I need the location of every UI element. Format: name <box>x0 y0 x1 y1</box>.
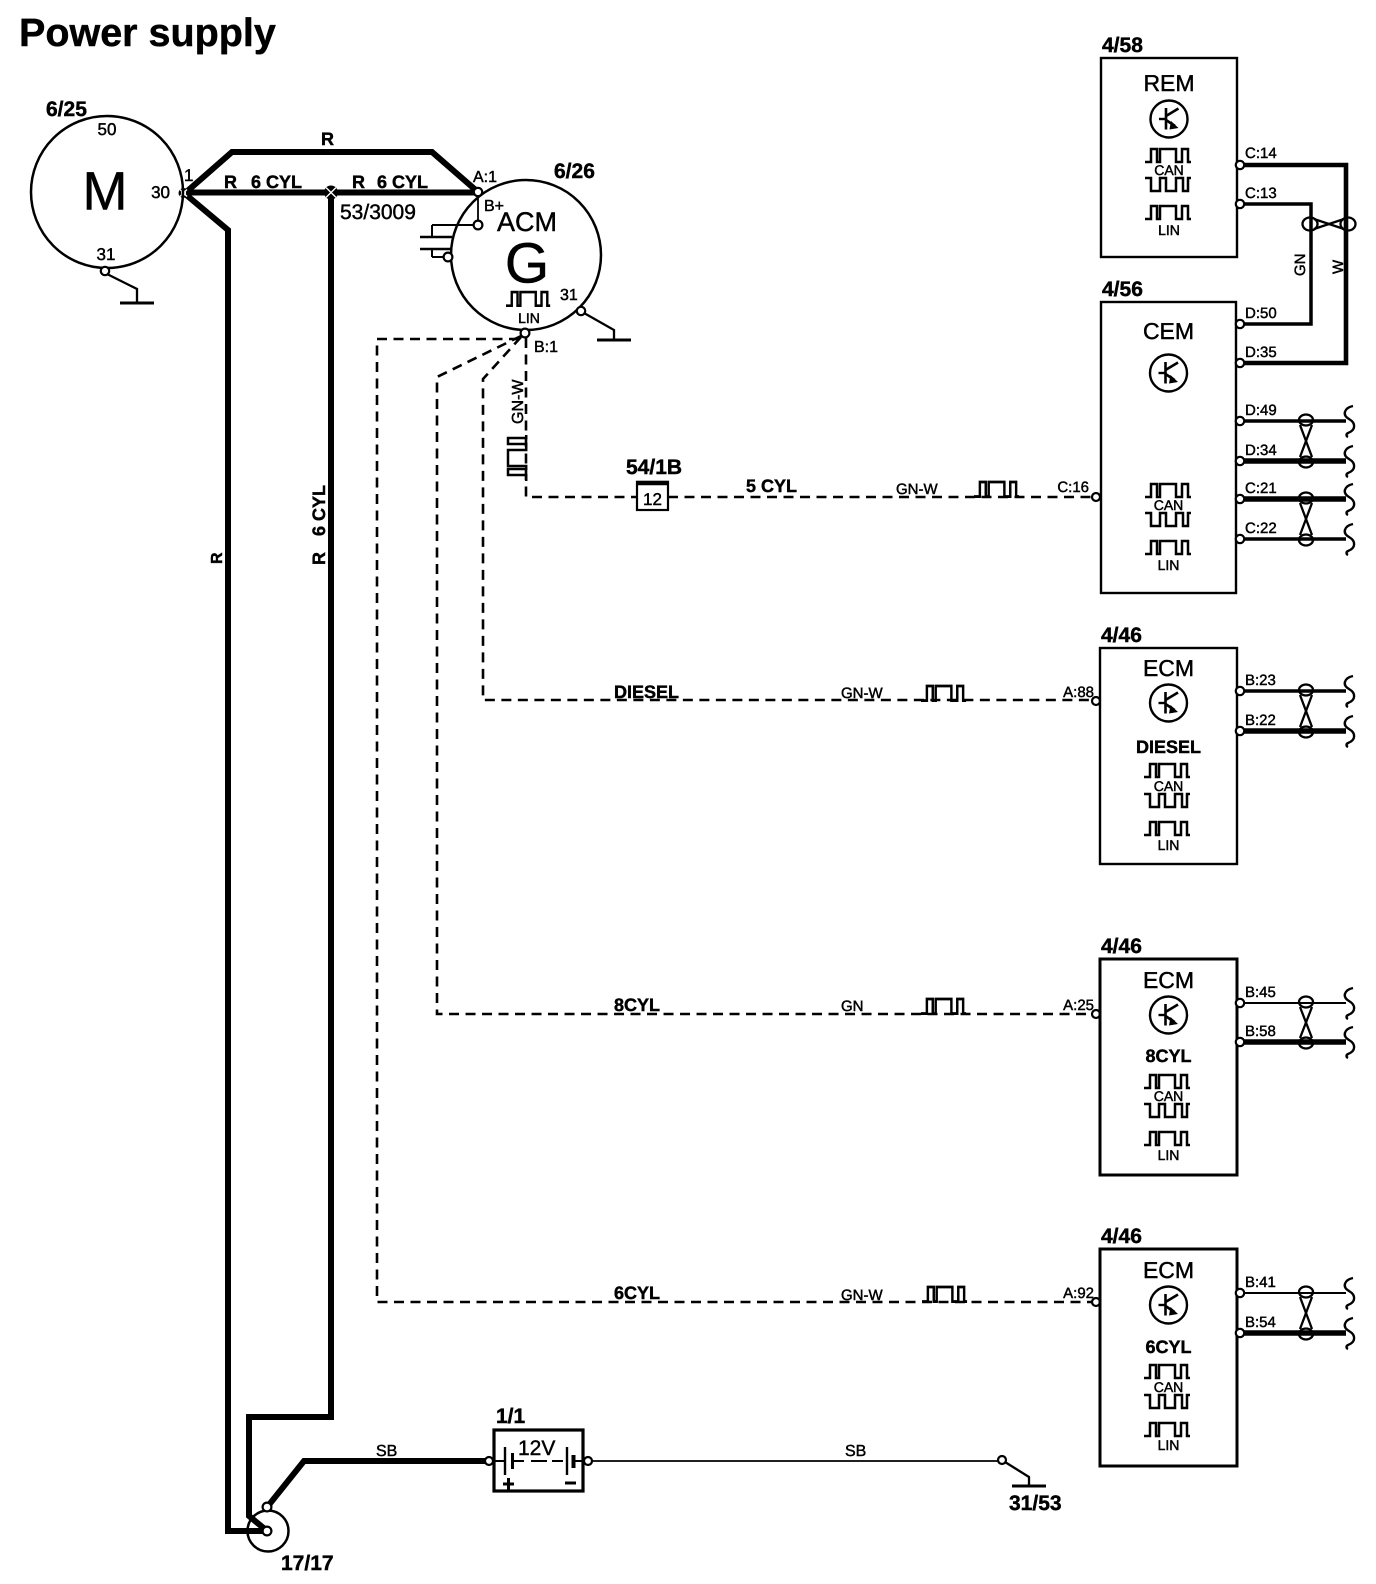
svg-text:4/58: 4/58 <box>1102 34 1143 57</box>
svg-text:A:88: A:88 <box>1063 684 1094 701</box>
svg-text:ECM: ECM <box>1143 655 1194 681</box>
svg-text:6 CYL: 6 CYL <box>251 172 302 192</box>
svg-text:LIN: LIN <box>1158 837 1180 853</box>
svg-text:31/53: 31/53 <box>1009 1492 1062 1515</box>
svg-text:A:1: A:1 <box>473 169 497 186</box>
svg-text:6 CYL: 6 CYL <box>309 485 329 536</box>
svg-text:M: M <box>83 162 128 222</box>
svg-text:ECM: ECM <box>1143 1257 1194 1283</box>
svg-text:B:54: B:54 <box>1245 1314 1276 1331</box>
svg-text:LIN: LIN <box>1158 222 1180 238</box>
svg-text:8CYL: 8CYL <box>614 995 660 1015</box>
svg-text:D:50: D:50 <box>1245 305 1277 322</box>
svg-text:LIN: LIN <box>1158 1147 1180 1163</box>
svg-text:W: W <box>1330 259 1347 274</box>
svg-text:R: R <box>224 172 237 192</box>
svg-text:CAN: CAN <box>1154 1088 1184 1104</box>
svg-text:DIESEL: DIESEL <box>614 682 679 702</box>
svg-text:C:21: C:21 <box>1245 480 1277 497</box>
svg-text:C:22: C:22 <box>1245 520 1277 537</box>
svg-text:4/56: 4/56 <box>1102 278 1143 301</box>
svg-text:C:14: C:14 <box>1245 145 1277 162</box>
svg-text:Power supply: Power supply <box>19 11 276 55</box>
svg-text:4/46: 4/46 <box>1101 624 1142 647</box>
svg-text:R: R <box>209 552 226 564</box>
svg-text:4/46: 4/46 <box>1101 1225 1142 1248</box>
svg-text:B:45: B:45 <box>1245 984 1276 1001</box>
svg-text:8CYL: 8CYL <box>1145 1046 1191 1066</box>
svg-text:D:49: D:49 <box>1245 402 1277 419</box>
svg-text:A:92: A:92 <box>1063 1285 1094 1302</box>
svg-text:GN-W: GN-W <box>510 379 527 424</box>
svg-text:31: 31 <box>97 245 116 264</box>
svg-text:G: G <box>505 232 549 296</box>
svg-text:31: 31 <box>560 287 578 304</box>
svg-text:12: 12 <box>643 490 662 509</box>
svg-text:17/17: 17/17 <box>281 1552 334 1575</box>
svg-text:6/26: 6/26 <box>554 160 595 183</box>
svg-text:SB: SB <box>376 1443 397 1460</box>
svg-text:D:34: D:34 <box>1245 442 1277 459</box>
svg-text:GN-W: GN-W <box>896 481 938 498</box>
svg-text:R: R <box>309 552 329 565</box>
svg-text:GN: GN <box>841 998 864 1015</box>
svg-text:1: 1 <box>184 166 193 185</box>
svg-text:SB: SB <box>845 1443 866 1460</box>
svg-text:B:41: B:41 <box>1245 1274 1276 1291</box>
svg-text:C:13: C:13 <box>1245 185 1277 202</box>
svg-text:LIN: LIN <box>1158 1437 1180 1453</box>
svg-text:C:16: C:16 <box>1057 479 1089 496</box>
svg-text:30: 30 <box>151 183 170 202</box>
svg-text:ECM: ECM <box>1143 967 1194 993</box>
svg-text:6/25: 6/25 <box>46 98 87 121</box>
svg-text:GN: GN <box>1292 254 1309 277</box>
svg-text:R: R <box>352 172 365 192</box>
svg-text:1/1: 1/1 <box>496 1405 526 1428</box>
svg-text:R: R <box>321 129 334 149</box>
svg-text:B:1: B:1 <box>534 339 558 356</box>
svg-text:GN-W: GN-W <box>841 1287 883 1304</box>
svg-text:D:35: D:35 <box>1245 344 1277 361</box>
svg-text:6CYL: 6CYL <box>1145 1337 1191 1357</box>
svg-text:6 CYL: 6 CYL <box>377 172 428 192</box>
svg-text:REM: REM <box>1143 70 1194 96</box>
svg-text:CAN: CAN <box>1154 162 1184 178</box>
svg-text:GN-W: GN-W <box>841 685 883 702</box>
svg-text:50: 50 <box>98 120 117 139</box>
svg-text:54/1B: 54/1B <box>626 456 682 479</box>
svg-text:A:25: A:25 <box>1063 997 1094 1014</box>
svg-text:B:23: B:23 <box>1245 672 1276 689</box>
svg-text:CAN: CAN <box>1154 1379 1184 1395</box>
svg-text:CAN: CAN <box>1154 497 1184 513</box>
svg-text:12V: 12V <box>518 1437 555 1460</box>
svg-text:B:22: B:22 <box>1245 712 1276 729</box>
svg-text:4/46: 4/46 <box>1101 935 1142 958</box>
svg-text:6CYL: 6CYL <box>614 1283 660 1303</box>
svg-text:CEM: CEM <box>1143 318 1194 344</box>
svg-text:LIN: LIN <box>518 310 540 326</box>
svg-text:53/3009: 53/3009 <box>340 201 416 224</box>
svg-text:LIN: LIN <box>1158 557 1180 573</box>
svg-text:DIESEL: DIESEL <box>1136 737 1201 757</box>
svg-text:5 CYL: 5 CYL <box>746 476 797 496</box>
svg-text:CAN: CAN <box>1154 778 1184 794</box>
svg-text:B:58: B:58 <box>1245 1023 1276 1040</box>
